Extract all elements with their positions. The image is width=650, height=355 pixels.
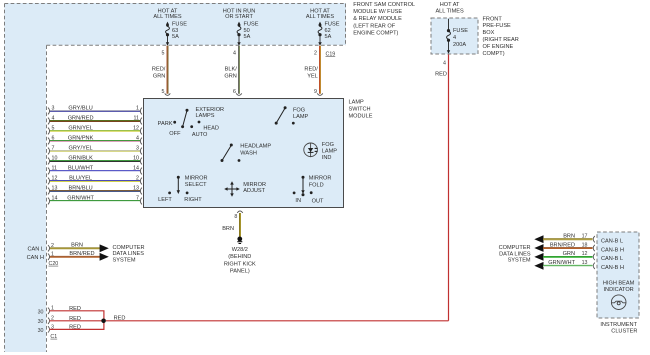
svg-text:6: 6: [52, 136, 55, 142]
svg-text:GRN/BLK: GRN/BLK: [68, 156, 93, 162]
svg-text:SYSTEM: SYSTEM: [508, 258, 531, 264]
wire GRY/YEL (lamp switch module pin 3): [48, 146, 142, 155]
svg-text:INDICATOR: INDICATOR: [603, 287, 633, 293]
wire GRN/YEL (lamp switch module pin 12): [48, 126, 142, 135]
svg-text:4: 4: [52, 116, 55, 122]
svg-text:62: 62: [325, 28, 331, 34]
pin 5 connector at module top: [165, 93, 171, 95]
svg-text:FRONT: FRONT: [483, 16, 503, 22]
fuse 4 200A: [447, 19, 469, 54]
svg-text:RED: RED: [435, 72, 447, 78]
node HOT AT ALL TIMES (pre-fuse feed): [435, 2, 464, 14]
svg-text:7: 7: [52, 146, 55, 152]
svg-text:YEL: YEL: [307, 74, 318, 80]
svg-text:3: 3: [52, 106, 55, 112]
svg-text:4: 4: [443, 60, 446, 66]
svg-text:11: 11: [134, 116, 140, 122]
mirror select switch: [158, 176, 207, 204]
svg-text:FOLD: FOLD: [309, 183, 324, 189]
svg-text:(RIGHT REAR: (RIGHT REAR: [483, 37, 519, 43]
svg-text:12: 12: [52, 176, 58, 182]
svg-text:FRONT SAM CONTROL: FRONT SAM CONTROL: [353, 2, 415, 8]
wire RED stub pin 1 (terminal 30): [38, 306, 104, 321]
wire RED/GRN fuse63 to lamp switch module pin 5: [152, 46, 168, 95]
mirror adjust switch: [224, 181, 266, 197]
svg-text:BRN/RED: BRN/RED: [550, 242, 575, 248]
svg-text:LEFT: LEFT: [158, 197, 172, 203]
svg-text:MIRROR: MIRROR: [243, 182, 266, 188]
svg-text:RIGHT: RIGHT: [184, 197, 202, 203]
front SAM control module region fill: [5, 3, 347, 352]
svg-text:63: 63: [172, 28, 178, 34]
svg-text:LAMPS: LAMPS: [196, 113, 215, 119]
svg-text:7: 7: [136, 196, 139, 202]
svg-text:GRN/PNK: GRN/PNK: [68, 136, 94, 142]
wire RED bus to front pre-fuse box: [106, 55, 449, 322]
svg-text:1: 1: [51, 251, 54, 257]
svg-text:CAN-B H: CAN-B H: [601, 265, 624, 271]
svg-text:PANEL): PANEL): [230, 269, 250, 275]
headlamp wash switch: [221, 143, 272, 162]
wire GRN/RED (lamp switch module pin 11): [48, 116, 142, 125]
svg-text:5: 5: [162, 50, 165, 56]
front SAM control module label: [353, 2, 415, 36]
svg-text:WASH: WASH: [240, 151, 257, 157]
exterior lamps rotary switch: [158, 107, 224, 138]
svg-text:LAMP: LAMP: [349, 99, 365, 105]
svg-text:HIGH BEAM: HIGH BEAM: [603, 281, 635, 287]
node COMPUTER DATA LINES SYSTEM (left): [113, 245, 145, 264]
svg-text:2: 2: [51, 243, 54, 249]
pin 6 connector at module top: [236, 93, 242, 95]
svg-text:(LEFT REAR OF: (LEFT REAR OF: [353, 23, 395, 29]
node HOT IN RUN OR START (fuse 50 feed): [223, 9, 256, 20]
svg-text:FUSE: FUSE: [325, 22, 340, 28]
svg-text:GRN/WHT: GRN/WHT: [67, 196, 94, 202]
svg-text:GRY/YEL: GRY/YEL: [69, 146, 93, 152]
svg-text:BLU/WHT: BLU/WHT: [68, 166, 94, 172]
svg-text:5A: 5A: [172, 34, 179, 40]
wire BRN to instrument cluster pin 17 (CAN-B L): [534, 234, 623, 245]
svg-text:BRN/RED: BRN/RED: [69, 251, 94, 257]
svg-text:RED: RED: [69, 306, 81, 312]
svg-text:13: 13: [582, 260, 588, 266]
svg-text:W28/2: W28/2: [232, 247, 248, 253]
node COMPUTER DATA LINES SYSTEM (right): [499, 245, 531, 263]
svg-text:INSTRUMENT: INSTRUMENT: [600, 322, 637, 328]
svg-text:LAMP: LAMP: [293, 114, 309, 120]
svg-text:CAN-B L: CAN-B L: [601, 256, 623, 262]
svg-text:OR START: OR START: [225, 14, 253, 20]
svg-text:30: 30: [38, 328, 44, 334]
svg-text:GRN: GRN: [563, 251, 575, 257]
wire BLK/GRN fuse50 to lamp switch module pin 6: [224, 46, 239, 95]
svg-text:3: 3: [136, 146, 139, 152]
ground W28/2: [224, 237, 256, 275]
svg-text:5A: 5A: [244, 34, 251, 40]
svg-text:200A: 200A: [453, 42, 466, 48]
front SAM control module dashed border: [5, 4, 347, 353]
wire RED/YEL fuse62 to lamp switch module pin 9: [304, 46, 320, 95]
svg-text:CAN L: CAN L: [28, 246, 44, 252]
svg-text:14: 14: [133, 166, 139, 172]
svg-text:BLK/: BLK/: [225, 67, 238, 73]
svg-text:12: 12: [582, 251, 588, 257]
fuse 50 5A: [237, 22, 259, 46]
svg-text:OUT: OUT: [312, 198, 324, 204]
svg-text:1: 1: [136, 106, 139, 112]
svg-text:& RELAY MODULE: & RELAY MODULE: [353, 16, 402, 22]
svg-text:LAMP: LAMP: [322, 148, 338, 154]
svg-text:13: 13: [133, 186, 139, 192]
wire BRN/BLU (lamp switch module pin 13): [48, 186, 142, 195]
svg-text:MIRROR: MIRROR: [185, 176, 208, 182]
svg-text:50: 50: [244, 28, 250, 34]
wire RED stub pin 3 (terminal 30): [38, 321, 104, 334]
svg-text:5: 5: [52, 126, 55, 132]
svg-text:COMPT): COMPT): [483, 51, 505, 57]
svg-text:PARK: PARK: [158, 121, 173, 127]
svg-text:13: 13: [52, 186, 58, 192]
high beam indicator lamp: [603, 281, 635, 310]
wire BLU/YEL (lamp switch module pin 2): [48, 176, 142, 185]
svg-text:30: 30: [38, 309, 44, 315]
svg-text:COMPUTER: COMPUTER: [499, 245, 531, 251]
svg-text:11: 11: [52, 166, 58, 172]
svg-text:FUSE: FUSE: [453, 28, 468, 34]
svg-text:CAN-B L: CAN-B L: [601, 239, 623, 245]
svg-text:OF ENGINE: OF ENGINE: [483, 44, 514, 50]
svg-text:RIGHT KICK: RIGHT KICK: [224, 261, 256, 267]
svg-text:(BEHIND: (BEHIND: [228, 254, 251, 260]
svg-text:BRN: BRN: [563, 234, 575, 240]
wire GRN/PNK (lamp switch module pin 4): [48, 136, 142, 145]
svg-text:FUSE: FUSE: [244, 22, 259, 28]
svg-text:HOT AT: HOT AT: [440, 2, 460, 8]
svg-text:HEADLAMP: HEADLAMP: [240, 143, 271, 149]
svg-text:AUTO: AUTO: [192, 132, 208, 138]
svg-text:14: 14: [52, 196, 58, 202]
svg-text:FUSE: FUSE: [172, 22, 187, 28]
wire GRY/BLU (lamp switch module pin 1): [48, 106, 142, 115]
svg-text:BRN: BRN: [222, 226, 234, 232]
svg-text:ENGINE COMPT): ENGINE COMPT): [353, 30, 398, 36]
pin 8 connector at module bottom: [237, 211, 243, 213]
svg-text:C19: C19: [326, 51, 336, 57]
wire GRN/WHT to instrument cluster pin 13 (CAN-B H): [534, 260, 624, 271]
wire RED stub pin 2 (terminal 30): [38, 316, 104, 325]
svg-text:RED: RED: [69, 316, 81, 322]
svg-text:8: 8: [234, 214, 237, 220]
node HOT AT ALL TIMES (fuse 63 feed): [153, 9, 182, 20]
svg-text:10: 10: [133, 156, 139, 162]
svg-text:SWITCH: SWITCH: [349, 106, 371, 112]
svg-text:10: 10: [52, 156, 58, 162]
fog lamp indicator LED: [304, 142, 338, 161]
fuse 63 5A: [166, 22, 188, 46]
wire BLU/WHT (lamp switch module pin 14): [48, 166, 142, 175]
svg-text:GRN: GRN: [224, 74, 236, 80]
svg-text:OFF: OFF: [169, 131, 181, 137]
svg-text:C20: C20: [49, 261, 59, 267]
svg-text:9: 9: [314, 89, 317, 95]
svg-text:CLUSTER: CLUSTER: [611, 328, 637, 334]
svg-text:17: 17: [582, 234, 588, 240]
svg-text:MIRROR: MIRROR: [309, 176, 332, 182]
svg-text:4: 4: [136, 136, 139, 142]
svg-text:SYSTEM: SYSTEM: [113, 257, 136, 263]
wire BRN to ground: [222, 213, 240, 237]
svg-text:ADJUST: ADJUST: [243, 188, 265, 194]
wire GRN/BLK (lamp switch module pin 10): [48, 156, 142, 165]
svg-text:RED: RED: [114, 315, 126, 321]
svg-text:EXTERIOR: EXTERIOR: [196, 107, 225, 113]
svg-text:CAN H: CAN H: [27, 255, 44, 261]
svg-text:BOX: BOX: [483, 30, 495, 36]
svg-text:2: 2: [314, 50, 317, 56]
svg-text:ALL TIMES: ALL TIMES: [153, 14, 182, 20]
svg-text:DATA LINES: DATA LINES: [499, 251, 531, 257]
junction splice (RED bus): [101, 319, 106, 324]
mirror fold switch: [293, 176, 332, 205]
svg-text:ALL TIMES: ALL TIMES: [435, 8, 464, 14]
svg-text:GRY/BLU: GRY/BLU: [68, 106, 92, 112]
svg-text:COMPUTER: COMPUTER: [113, 245, 145, 251]
svg-text:6: 6: [233, 89, 236, 95]
svg-text:2: 2: [136, 176, 139, 182]
svg-text:PRE-FUSE: PRE-FUSE: [483, 23, 512, 29]
fuse 62 5A: [318, 22, 340, 46]
svg-text:IND: IND: [322, 155, 332, 161]
svg-text:12: 12: [133, 126, 139, 132]
svg-text:SELECT: SELECT: [185, 182, 207, 188]
svg-text:HEAD: HEAD: [203, 126, 219, 132]
svg-text:4: 4: [453, 35, 456, 41]
svg-text:FOG: FOG: [293, 108, 305, 114]
svg-text:BRN/BLU: BRN/BLU: [68, 186, 92, 192]
fog lamp switch: [275, 106, 309, 124]
svg-text:GRN/YEL: GRN/YEL: [68, 126, 93, 132]
svg-text:BRN: BRN: [71, 243, 83, 249]
node HOT AT ALL TIMES (fuse 62 feed): [306, 9, 335, 20]
svg-text:BLU/YEL: BLU/YEL: [69, 176, 92, 182]
wire BRN/RED to instrument cluster pin 18 (CAN-B H): [534, 242, 624, 253]
wire BRN (CAN L, pin 2): [48, 243, 109, 253]
svg-text:GRN: GRN: [153, 74, 165, 80]
svg-text:18: 18: [582, 242, 588, 248]
svg-text:CAN-B H: CAN-B H: [601, 247, 624, 253]
lamp switch module box: [144, 99, 373, 208]
svg-text:5: 5: [162, 89, 165, 95]
svg-text:GRN/RED: GRN/RED: [68, 116, 94, 122]
svg-text:RED/: RED/: [152, 67, 166, 73]
pin 4 and RED label on feed wire: [435, 60, 447, 77]
pin 9 connector at module top: [317, 93, 323, 95]
wire BRN/RED (CAN H, pin 1): [48, 251, 109, 261]
svg-text:30: 30: [38, 319, 44, 325]
svg-text:DATA LINES: DATA LINES: [113, 251, 145, 257]
svg-text:FOG: FOG: [322, 142, 334, 148]
svg-text:RED/: RED/: [304, 67, 318, 73]
front pre-fuse box: [431, 16, 519, 57]
wire GRN to instrument cluster pin 12 (CAN-B L): [534, 251, 623, 262]
svg-text:MODULE: MODULE: [349, 114, 373, 120]
svg-text:IN: IN: [295, 198, 301, 204]
instrument cluster box: [597, 232, 639, 334]
svg-text:5A: 5A: [325, 34, 332, 40]
svg-text:C1: C1: [50, 334, 57, 340]
svg-text:GRN/WHT: GRN/WHT: [548, 260, 575, 266]
svg-text:ALL TIMES: ALL TIMES: [306, 14, 335, 20]
wire GRN/WHT (lamp switch module pin 7): [48, 196, 142, 205]
svg-text:4: 4: [233, 50, 236, 56]
svg-text:MODULE W/ FUSE: MODULE W/ FUSE: [353, 9, 402, 15]
svg-text:RED: RED: [69, 324, 81, 330]
